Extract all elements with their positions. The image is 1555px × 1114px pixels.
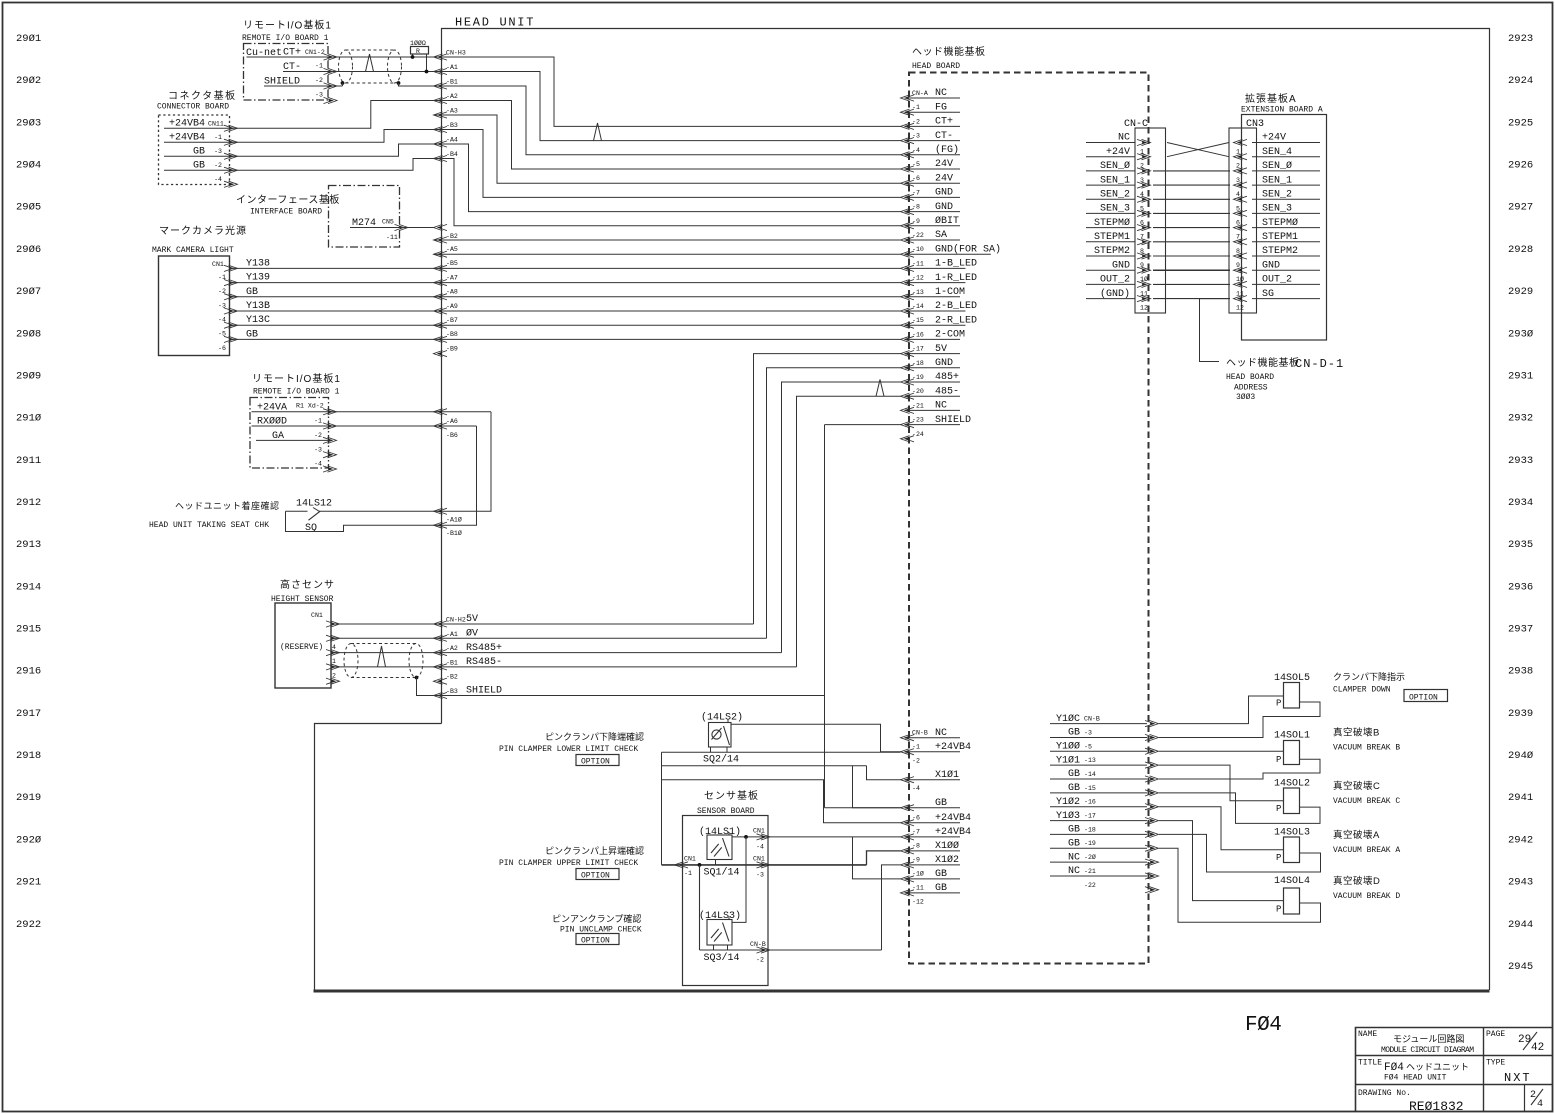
svg-text:FG: FG [935, 102, 947, 113]
svg-text:CN-B: CN-B [1084, 716, 1100, 723]
svg-text:PIN CLAMPER LOWER LIMIT CHECK: PIN CLAMPER LOWER LIMIT CHECK [499, 745, 638, 754]
connector pins (remote I/O board second) [323, 409, 337, 415]
svg-text:(14LS1): (14LS1) [699, 826, 741, 838]
svg-text:1-COM: 1-COM [935, 287, 965, 298]
board: INTERFACE BOARD dash-dot outline [329, 186, 400, 248]
svg-text:CN1-2: CN1-2 [305, 49, 325, 56]
svg-text:-4: -4 [314, 461, 322, 468]
svg-text:-3: -3 [912, 133, 920, 140]
svg-text:P: P [1276, 699, 1281, 709]
board: REMOTE I/O BOARD 1 (top) dash-dot outline [244, 44, 329, 101]
svg-text:NC: NC [1068, 852, 1080, 863]
connector CN-C outline [1135, 128, 1166, 313]
svg-text:-A1: -A1 [446, 64, 458, 71]
svg-text:GB: GB [1068, 769, 1080, 780]
svg-text:R: R [416, 48, 420, 55]
svg-text:-12: -12 [912, 899, 924, 906]
svg-text:-13: -13 [912, 289, 924, 296]
svg-text:-1: -1 [684, 870, 692, 877]
svg-text:X1Ø1: X1Ø1 [935, 769, 959, 781]
svg-text:4: 4 [1537, 1099, 1543, 1110]
svg-text:拡張基板A: 拡張基板A [1245, 92, 1297, 105]
wire CN-H3 to CN-A CT+ net [434, 57, 901, 126]
svg-text:CT-: CT- [935, 131, 953, 142]
connector CN1-4 (sensor board) [757, 834, 771, 840]
svg-text:2939: 2939 [1508, 708, 1533, 720]
wire 0V height sensor [331, 637, 434, 639]
svg-text:-21: -21 [1084, 868, 1096, 875]
svg-text:-8: -8 [912, 204, 920, 211]
svg-text:(14LS3): (14LS3) [699, 910, 741, 922]
svg-text:CN-A: CN-A [912, 90, 928, 97]
svg-text:-B1: -B1 [446, 659, 458, 666]
connector CN1 (mark camera light) pins [224, 265, 238, 271]
svg-text:2913: 2913 [16, 539, 41, 551]
svg-text:+24VB4: +24VB4 [935, 813, 971, 824]
svg-text:2933: 2933 [1508, 455, 1533, 467]
wire CN-A 485+ to CN-H2 RS485+ [782, 382, 901, 653]
wire 14LS2 top to CN-B +24VB4 [731, 724, 901, 751]
svg-text:HEAD BOARD: HEAD BOARD [912, 62, 960, 71]
svg-text:CN1: CN1 [753, 856, 765, 863]
solenoid 14SOL4 coil [1284, 888, 1300, 914]
svg-text:-B4: -B4 [446, 151, 458, 158]
svg-text:CN1: CN1 [753, 828, 765, 835]
svg-text:29Ø8: 29Ø8 [16, 328, 41, 340]
svg-text:-B5: -B5 [446, 260, 458, 267]
svg-text:2929: 2929 [1508, 286, 1533, 298]
svg-text:-11: -11 [912, 260, 924, 267]
wire CN-H3 -A1 to CN-A CT- net [434, 72, 901, 141]
svg-text:-15: -15 [912, 317, 924, 324]
svg-text:OPTION: OPTION [581, 937, 610, 946]
connector CN1-3 (sensor board) [757, 862, 771, 868]
wire Y139 1-R_LED [230, 282, 901, 284]
connector CN3 pins [1234, 139, 1248, 145]
svg-text:HEAD UNIT TAKING SEAT CHK: HEAD UNIT TAKING SEAT CHK [149, 521, 269, 530]
wire 14LS3 to SQ1 common [699, 865, 701, 950]
svg-text:-1: -1 [314, 418, 322, 425]
svg-text:-3: -3 [315, 92, 323, 99]
svg-text:14SOL2: 14SOL2 [1274, 779, 1310, 790]
svg-text:-9: -9 [912, 218, 920, 225]
junction shield drain right and wire to CN-H3 -B1 [397, 81, 401, 85]
wire RS485+ height sensor [331, 652, 434, 654]
svg-text:P: P [1276, 853, 1281, 863]
svg-text:INTERFACE BOARD: INTERFACE BOARD [250, 208, 322, 217]
svg-text:42: 42 [1531, 1042, 1544, 1054]
wire +24VA net (to CN-H3 -A6 and -A10) [252, 411, 492, 413]
svg-text:ØV: ØV [466, 628, 478, 640]
svg-text:2941: 2941 [1508, 792, 1533, 804]
svg-text:GB: GB [1068, 728, 1080, 739]
svg-text:293Ø: 293Ø [1508, 328, 1533, 340]
wire CN-H3 -A2 to CN-A 24V net [434, 101, 901, 170]
wire CN-C +24V to CN3 +24V (crossover) [1167, 143, 1229, 157]
wire CN11 +24VB4 to CN-H3 -B3 [164, 130, 434, 143]
svg-text:ピンクランパ下降端確認: ピンクランパ下降端確認 [545, 731, 644, 742]
svg-text:Y1Ø2: Y1Ø2 [1056, 796, 1080, 808]
svg-text:29Ø7: 29Ø7 [16, 286, 41, 298]
svg-text:2936: 2936 [1508, 581, 1533, 593]
wire CN-H3 -B4 to CN-A 0BIT net [434, 159, 901, 226]
svg-text:FØ4: FØ4 [1384, 1062, 1404, 1074]
svg-text:-22: -22 [1084, 882, 1096, 889]
svg-text:FØ4: FØ4 [1245, 1014, 1281, 1037]
svg-text:SEN_Ø: SEN_Ø [1100, 160, 1130, 172]
wire Y100 to 14SOL1 [1159, 750, 1284, 752]
wire GA [256, 439, 331, 441]
svg-text:CN1: CN1 [212, 261, 224, 268]
wire CN-H3 -A4 to CN-A GND net [434, 144, 901, 212]
wire CN-A GND to CN-H2 0V [767, 368, 901, 639]
connector CN-B pins on HEAD BOARD right [1145, 721, 1159, 727]
svg-text:-A8: -A8 [446, 289, 458, 296]
svg-text:SQ1/14: SQ1/14 [704, 867, 740, 879]
wire Y102 to 14SOL3 [1159, 807, 1284, 850]
svg-text:-2: -2 [315, 77, 323, 84]
wire CN-H3 -A3 to CN-A 24V net [434, 115, 901, 183]
svg-text:MODULE CIRCUIT DIAGRAM: MODULE CIRCUIT DIAGRAM [1381, 1046, 1474, 1055]
wire CN11 +24VB4 to CN-H3 -A2 [164, 101, 434, 129]
svg-text:-17: -17 [1084, 813, 1096, 820]
svg-text:-2: -2 [912, 118, 920, 125]
solenoid 14SOL3 coil [1284, 837, 1300, 863]
svg-text:-9: -9 [912, 857, 920, 864]
svg-text:29Ø1: 29Ø1 [16, 33, 41, 45]
HEAD UNIT boundary thick bottom [314, 990, 1490, 993]
svg-text:2916: 2916 [16, 666, 41, 678]
svg-text:14SOL1: 14SOL1 [1274, 731, 1310, 742]
svg-text:2944: 2944 [1508, 919, 1533, 931]
svg-text:-A2: -A2 [446, 645, 458, 652]
board: EXTENSION BOARD A outline [1242, 115, 1327, 341]
svg-text:(14LS2): (14LS2) [701, 712, 743, 724]
svg-text:-3: -3 [314, 446, 322, 453]
svg-text:GB: GB [1068, 838, 1080, 849]
svg-text:Y1ØC: Y1ØC [1056, 713, 1080, 725]
svg-text:-6: -6 [912, 815, 920, 822]
svg-text:GB: GB [1068, 783, 1080, 794]
shielded cable symbol (height sensor) [344, 644, 423, 678]
svg-text:2934: 2934 [1508, 497, 1533, 509]
svg-text:ピンクランパ上昇端確認: ピンクランパ上昇端確認 [545, 845, 644, 856]
svg-text:3ØØ3: 3ØØ3 [1236, 393, 1255, 402]
svg-text:-1: -1 [912, 744, 920, 751]
OPTION box (upper limit) [576, 869, 619, 880]
svg-text:-1: -1 [214, 134, 222, 141]
svg-text:ヘッドユニット: ヘッドユニット [1406, 1062, 1469, 1072]
svg-text:-4: -4 [912, 147, 920, 154]
wire Y13C 2-R_LED [230, 324, 901, 326]
svg-text:NC: NC [935, 401, 947, 412]
svg-text:-16: -16 [912, 331, 924, 338]
svg-text:-B9: -B9 [446, 345, 458, 352]
svg-text:-A4: -A4 [446, 137, 458, 144]
svg-text:2922: 2922 [16, 919, 41, 931]
svg-text:-5: -5 [912, 161, 920, 168]
svg-text:29Ø3: 29Ø3 [16, 117, 41, 129]
wire row -2 to GB and X101 [662, 765, 867, 767]
twisted pair spike on RS485- wire [378, 646, 386, 667]
svg-text:リモートI/O基板1: リモートI/O基板1 [243, 19, 332, 32]
svg-text:-B3: -B3 [446, 688, 458, 695]
wire CN-C NC to CN3 SEN_4 (crossover) [1167, 143, 1229, 157]
svg-text:24V: 24V [935, 159, 953, 170]
svg-text:1-R_LED: 1-R_LED [935, 273, 977, 284]
svg-text:-3: -3 [214, 148, 222, 155]
svg-text:CN-C: CN-C [1124, 119, 1148, 130]
solenoid 14SOL5 coil [1284, 683, 1300, 709]
svg-text:29Ø6: 29Ø6 [16, 244, 41, 256]
svg-text:29: 29 [1518, 1034, 1531, 1046]
svg-text:-10: -10 [912, 246, 924, 253]
svg-text:2-B_LED: 2-B_LED [935, 301, 977, 312]
svg-text:CLAMPER DOWN: CLAMPER DOWN [1333, 686, 1391, 695]
svg-text:CONNECTOR BOARD: CONNECTOR BOARD [157, 103, 229, 112]
connector CN-H3 lower pins -A5..-B9 [434, 237, 448, 243]
svg-text:-12: -12 [912, 275, 924, 282]
svg-text:-A3: -A3 [446, 108, 458, 115]
svg-text:2-R_LED: 2-R_LED [935, 315, 977, 326]
svg-text:-A6: -A6 [446, 418, 458, 425]
junction shield drain to CN-H2 -B3 [415, 676, 419, 680]
svg-text:STEPMØ: STEPMØ [1262, 217, 1298, 229]
svg-text:2937: 2937 [1508, 624, 1533, 636]
twisted pair spike on 485- wire [876, 380, 884, 397]
wire 14LS1 to 14LS3 link [732, 837, 746, 923]
svg-text:-13: -13 [1084, 757, 1096, 764]
svg-text:NAME: NAME [1358, 1030, 1377, 1039]
svg-text:高さセンサ: 高さセンサ [280, 578, 335, 591]
svg-text:GB: GB [935, 869, 947, 880]
svg-text:リモートI/O基板1: リモートI/O基板1 [252, 372, 341, 385]
wire 14SOL5 to GB -3 [1159, 702, 1320, 738]
svg-text:REMOTE I/O BOARD 1: REMOTE I/O BOARD 1 [242, 34, 329, 43]
svg-text:Y1ØØ: Y1ØØ [1056, 741, 1080, 753]
connector CN-H3 pins -A6 -B6 [434, 409, 448, 415]
wire Y101 to 14SOL2 [1159, 765, 1284, 801]
svg-text:SENSOR BOARD: SENSOR BOARD [697, 807, 755, 816]
svg-text:-8: -8 [912, 843, 920, 850]
svg-text:29Ø2: 29Ø2 [16, 75, 41, 87]
svg-text:VACUUM BREAK A: VACUUM BREAK A [1333, 846, 1400, 855]
svg-text:-1: -1 [315, 63, 323, 70]
svg-text:NC: NC [935, 88, 947, 99]
svg-text:-24: -24 [912, 431, 924, 438]
svg-text:モジュール回路図: モジュール回路図 [1393, 1033, 1464, 1044]
svg-text:2915: 2915 [16, 624, 41, 636]
svg-text:-2: -2 [314, 432, 322, 439]
svg-text:CN11: CN11 [208, 121, 224, 128]
connector CN5 pin M274 [395, 224, 409, 230]
connector CN1 (height sensor) pins [326, 621, 340, 627]
board: SENSOR BOARD outline [683, 816, 769, 986]
svg-text:GB: GB [935, 883, 947, 894]
wire common vertical (SQ2 return) [661, 752, 663, 865]
connector CN1-1 (sensor board) [675, 862, 689, 868]
svg-text:インターフェース基板: インターフェース基板 [236, 193, 340, 206]
wire CT- (Cu-net to CN-H3) [283, 71, 434, 73]
svg-text:14SOL3: 14SOL3 [1274, 828, 1310, 839]
svg-text:-21: -21 [912, 402, 924, 409]
wire common bus to X100 [662, 864, 867, 866]
svg-text:294Ø: 294Ø [1508, 750, 1533, 762]
svg-text:STEPMØ: STEPMØ [1094, 217, 1130, 229]
svg-text:-B1: -B1 [446, 79, 458, 86]
svg-text:X1ØØ: X1ØØ [935, 840, 959, 852]
svg-text:2925: 2925 [1508, 117, 1533, 129]
svg-text:Y1Ø3: Y1Ø3 [1056, 810, 1080, 822]
solenoid 14SOL2 coil [1284, 788, 1300, 814]
board: REMOTE I/O BOARD 1 (second) dash-dot outline [250, 398, 329, 469]
svg-text:2: 2 [332, 672, 336, 679]
svg-text:14SOL4: 14SOL4 [1274, 876, 1310, 887]
connector CN-H2 pins on HEAD UNIT boundary [434, 621, 448, 627]
svg-text:CT+: CT+ [935, 117, 953, 128]
svg-text:GND(FOR SA): GND(FOR SA) [935, 243, 1001, 255]
svg-text:291Ø: 291Ø [16, 413, 41, 425]
svg-text:R1 Xd-2: R1 Xd-2 [296, 403, 324, 410]
wire 14SOL1 to GB -14 [1159, 759, 1320, 779]
wire RS485- height sensor [331, 666, 434, 668]
wire X101 row to +24VB4 [662, 780, 901, 823]
wire 14LS1 bottom pin [715, 860, 717, 865]
svg-text:1ØØΩ: 1ØØΩ [410, 39, 426, 47]
wire CN-A 485- to CN-H2 RS485- [797, 396, 901, 667]
svg-text:-B2: -B2 [446, 674, 458, 681]
svg-text:-11: -11 [912, 885, 924, 892]
svg-text:GB: GB [246, 329, 258, 340]
svg-text:-1Ø: -1Ø [912, 870, 924, 878]
wire +24VB4 bus under 14LS2 [662, 751, 901, 753]
svg-text:-14: -14 [1084, 771, 1096, 778]
svg-text:VACUUM BREAK B: VACUUM BREAK B [1333, 744, 1400, 753]
svg-text:2945: 2945 [1508, 961, 1533, 973]
svg-text:2928: 2928 [1508, 244, 1533, 256]
svg-text:-B8: -B8 [446, 331, 458, 338]
svg-text:-A9: -A9 [446, 303, 458, 310]
svg-text:-2: -2 [756, 957, 764, 964]
svg-text:2935: 2935 [1508, 539, 1533, 551]
svg-text:PAGE: PAGE [1486, 1030, 1505, 1039]
svg-text:GB: GB [1068, 825, 1080, 836]
svg-text:マークカメラ光源: マークカメラ光源 [159, 224, 247, 237]
svg-text:12: 12 [1236, 305, 1244, 312]
wire RX00D net (to CN-H3 -B6 and -B10) [252, 425, 477, 427]
svg-text:-A5: -A5 [446, 246, 458, 253]
svg-text:P: P [1276, 905, 1281, 915]
wire Y103 to 14SOL4 [1159, 821, 1284, 901]
svg-text:-22: -22 [912, 232, 924, 239]
junction shield drain left [341, 81, 345, 85]
wire CN3 pin12 head board address callout [1200, 299, 1230, 362]
svg-text:Y138: Y138 [246, 258, 270, 269]
connector CN-H3 upper pins on HEAD UNIT boundary [434, 54, 448, 60]
connector CN11 pins [224, 125, 238, 131]
svg-text:1: 1 [332, 658, 336, 665]
svg-text:2931: 2931 [1508, 370, 1533, 382]
svg-text:5V: 5V [935, 344, 947, 355]
svg-text:-2: -2 [912, 758, 920, 765]
connector CN-B-2 (sensor board) [757, 947, 771, 953]
solenoid 14SOL1 coil [1284, 741, 1300, 765]
wire CT+ (Cu-net to CN-H3) [247, 56, 434, 58]
svg-text:2926: 2926 [1508, 160, 1533, 172]
shielded cable symbol (Cu-net twisted pair) [339, 50, 402, 83]
wire Y138 1-B_LED [230, 267, 901, 269]
wire M274 to CN-H3 -B2 [350, 227, 434, 229]
wire 14SOL4 to GB -19 [1159, 848, 1321, 922]
svg-text:ピンアンクランプ確認: ピンアンクランプ確認 [552, 913, 641, 924]
connector CN-H3 pin -B2 [434, 224, 448, 230]
svg-text:SQ3/14: SQ3/14 [704, 952, 740, 964]
connector CN-B pins on HEAD BOARD left [901, 735, 915, 741]
svg-text:-2: -2 [214, 162, 222, 169]
svg-text:SEN_Ø: SEN_Ø [1262, 160, 1292, 172]
svg-text:-A1Ø: -A1Ø [446, 515, 462, 523]
connector CN1 (remote I/O top) pin CT+ row [324, 54, 338, 60]
svg-text:GB: GB [246, 287, 258, 298]
OPTION box (clamper down) [1404, 690, 1448, 702]
svg-text:2917: 2917 [16, 708, 41, 720]
wire 14LS2 bottom pins [710, 747, 712, 752]
svg-text:Y13B: Y13B [246, 301, 270, 312]
svg-text:Y1Ø1: Y1Ø1 [1056, 754, 1080, 766]
svg-text:-3: -3 [1084, 730, 1092, 737]
svg-text:2914: 2914 [16, 581, 41, 593]
svg-text:14SOL5: 14SOL5 [1274, 673, 1310, 684]
connector CN-H3 pins -A10 -B10 [434, 508, 448, 514]
wire 14LS3 bottom pins [713, 945, 715, 950]
wire 14SOL3 to GB -18 [1159, 834, 1321, 872]
svg-text:-4: -4 [214, 176, 222, 183]
svg-text:+24VB4: +24VB4 [935, 742, 971, 753]
connector CN-A pins on HEAD BOARD [901, 95, 915, 101]
svg-text:-18: -18 [912, 360, 924, 367]
svg-text:-4: -4 [912, 785, 920, 792]
svg-text:2942: 2942 [1508, 834, 1533, 846]
svg-text:2921: 2921 [16, 877, 41, 889]
svg-text:TYPE: TYPE [1486, 1059, 1505, 1068]
svg-text:-3: -3 [756, 872, 764, 879]
svg-text:+24VB4: +24VB4 [935, 827, 971, 838]
wire CN-H3 -B3 to CN-A GND net [434, 130, 901, 198]
svg-text:2911: 2911 [16, 455, 41, 467]
svg-text:2918: 2918 [16, 750, 41, 762]
board: HEIGHT SENSOR outline [275, 603, 331, 688]
twisted pair spike on CT- long wire [594, 123, 602, 141]
wire 14SOL2 to GB -15 [1159, 793, 1320, 824]
svg-text:NC: NC [935, 728, 947, 739]
wire CN-H3 -A5 to CN-A SA [434, 239, 901, 241]
board: HEAD BOARD dashed outline [909, 73, 1149, 964]
svg-text:ADDRESS: ADDRESS [1234, 384, 1268, 393]
svg-text:-B6: -B6 [446, 432, 458, 439]
svg-text:P: P [1276, 755, 1281, 765]
wires CN-C to CN3 straight rows [1153, 170, 1230, 172]
svg-text:29Ø9: 29Ø9 [16, 370, 41, 382]
svg-text:SQ: SQ [305, 523, 317, 534]
board: MARK CAMERA LIGHT outline [159, 256, 230, 356]
svg-text:VACUUM BREAK C: VACUUM BREAK C [1333, 797, 1400, 806]
svg-text:NC: NC [1068, 866, 1080, 877]
svg-text:P: P [1276, 804, 1281, 814]
svg-text:DRAWING No.: DRAWING No. [1358, 1089, 1411, 1098]
svg-text:2-COM: 2-COM [935, 330, 965, 341]
svg-text:-20: -20 [912, 388, 924, 395]
svg-text:-19: -19 [912, 374, 924, 381]
